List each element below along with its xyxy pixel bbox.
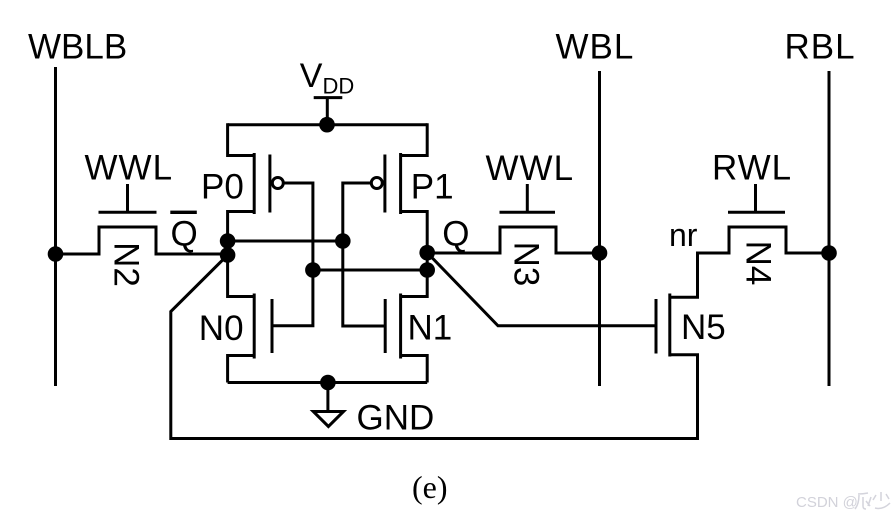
svg-text:N1: N1 <box>408 309 453 348</box>
svg-text:N3: N3 <box>507 242 546 287</box>
svg-text:WWL: WWL <box>486 149 575 188</box>
svg-text:RBL: RBL <box>785 28 856 67</box>
svg-text:P1: P1 <box>411 168 454 207</box>
svg-text:nr: nr <box>669 217 698 253</box>
svg-text:P0: P0 <box>201 168 244 207</box>
svg-text:Q: Q <box>442 215 469 254</box>
svg-text:Q: Q <box>171 215 198 254</box>
svg-text:N4: N4 <box>739 241 778 286</box>
svg-text:RWL: RWL <box>712 149 792 188</box>
svg-text:CSDN @: CSDN @ <box>796 494 858 511</box>
svg-text:V: V <box>300 57 323 95</box>
svg-text:(e): (e) <box>412 469 448 505</box>
svg-text:N5: N5 <box>681 308 726 347</box>
svg-text:N0: N0 <box>199 309 244 348</box>
svg-text:WBLB: WBLB <box>28 28 127 67</box>
svg-text:DD: DD <box>323 74 355 99</box>
svg-text:GND: GND <box>357 399 435 438</box>
svg-text:WWL: WWL <box>85 149 174 188</box>
svg-text:WBL: WBL <box>556 28 635 67</box>
svg-text:N2: N2 <box>107 242 146 287</box>
